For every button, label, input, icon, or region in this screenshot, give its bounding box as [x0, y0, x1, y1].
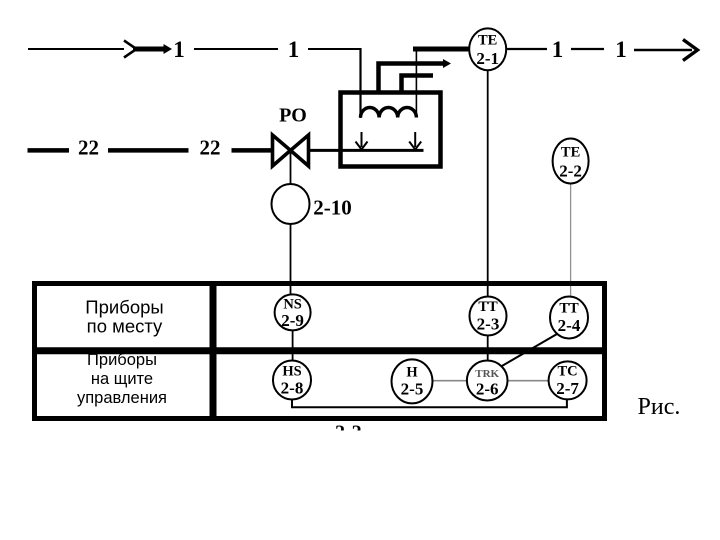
- svg-text:1: 1: [552, 37, 564, 62]
- svg-text:HS: HS: [282, 364, 301, 380]
- svg-text:управления: управления: [77, 389, 167, 407]
- svg-text:1: 1: [173, 37, 185, 62]
- svg-text:2-7: 2-7: [556, 379, 579, 398]
- svg-text:РО: РО: [279, 105, 307, 127]
- svg-text:по месту: по месту: [87, 316, 163, 337]
- svg-text:Приборы: Приборы: [87, 351, 157, 369]
- svg-text:2-8: 2-8: [281, 379, 304, 398]
- svg-text:1: 1: [288, 37, 300, 62]
- svg-text:Рис.: Рис.: [638, 394, 681, 420]
- svg-text:Приборы: Приборы: [85, 297, 163, 318]
- svg-text:H: H: [406, 365, 418, 381]
- svg-text:TC: TC: [558, 364, 578, 380]
- svg-text:22: 22: [78, 136, 99, 160]
- svg-text:2-2: 2-2: [335, 421, 362, 443]
- svg-text:2-9: 2-9: [281, 311, 304, 330]
- svg-text:2-3: 2-3: [477, 315, 500, 334]
- svg-text:TRK: TRK: [475, 368, 499, 380]
- svg-text:TT: TT: [478, 299, 498, 315]
- svg-text:2-10: 2-10: [313, 196, 352, 220]
- svg-text:1: 1: [615, 37, 627, 62]
- svg-text:22: 22: [200, 136, 221, 160]
- svg-text:2-2: 2-2: [559, 162, 582, 181]
- svg-text:2-4: 2-4: [558, 316, 581, 335]
- svg-text:на щите: на щите: [91, 370, 153, 388]
- svg-text:TT: TT: [559, 301, 579, 317]
- svg-text:TE: TE: [478, 33, 497, 49]
- svg-text:2-6: 2-6: [476, 379, 499, 398]
- svg-text:2-5: 2-5: [401, 380, 424, 399]
- svg-text:TE: TE: [561, 145, 580, 161]
- svg-text:2-1: 2-1: [476, 49, 499, 68]
